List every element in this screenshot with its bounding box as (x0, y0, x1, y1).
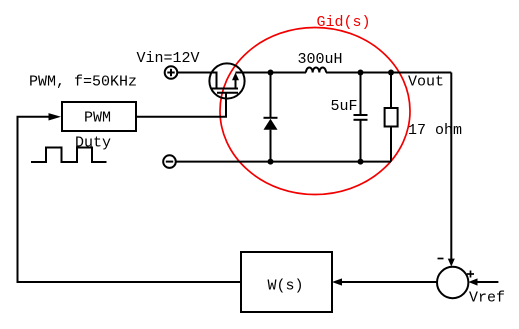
summer circle (437, 267, 468, 298)
svg-text:5uF: 5uF (331, 98, 358, 115)
svg-text:17 ohm: 17 ohm (408, 122, 462, 139)
wire inductor to right corner (326, 72, 451, 74)
svg-text:Gid(s): Gid(s) (317, 14, 371, 31)
svg-text:Duty: Duty (75, 135, 111, 152)
wire + terminal to MOSFET (177, 72, 210, 74)
node capacitor bottom junction (358, 159, 364, 165)
wire drain to right corner (top rail) (236, 72, 307, 74)
wire summer to W(s) (342, 281, 437, 283)
inductor L1 300uH (306, 67, 326, 72)
arrowhead into summer right (468, 278, 477, 285)
arrowhead into PWM (49, 113, 62, 120)
node Vout junction (388, 70, 394, 76)
svg-text:300uH: 300uH (298, 51, 343, 68)
svg-text:W(s): W(s) (268, 278, 304, 295)
svg-text:Vref: Vref (469, 290, 505, 307)
feedback wire W(s) to PWM (18, 117, 242, 282)
transistor Q1 (MOSFET) (209, 63, 244, 98)
node switch/diode junction (268, 70, 274, 76)
source - terminal (163, 155, 176, 168)
diode D1 (264, 73, 278, 162)
node capacitor top junction (358, 70, 364, 76)
duty square wave (31, 148, 107, 163)
wire Vout down right side (450, 73, 452, 260)
minus sign (438, 258, 444, 260)
svg-text:Vin=12V: Vin=12V (137, 50, 200, 67)
resistor R1 17 ohm (385, 73, 398, 162)
svg-text:Vout: Vout (408, 74, 444, 91)
source + terminal (165, 66, 178, 79)
plus sign (467, 271, 474, 278)
bottom rail wire (176, 161, 391, 163)
wire PWM output to gate (136, 93, 226, 117)
W(s) block (241, 252, 332, 312)
node diode bottom junction (268, 159, 274, 165)
capacitor C1 5uF (354, 73, 368, 162)
svg-text:PWM, f=50KHz: PWM, f=50KHz (29, 74, 137, 91)
PWM block (62, 102, 136, 131)
red ellipse Gid(s) boundary (220, 28, 410, 195)
arrowhead into summer top (448, 259, 455, 267)
arrowhead into W(s) (332, 278, 342, 285)
transistor arrowhead (232, 73, 239, 81)
svg-text:PWM: PWM (84, 109, 111, 126)
wire Vref input (477, 281, 498, 283)
